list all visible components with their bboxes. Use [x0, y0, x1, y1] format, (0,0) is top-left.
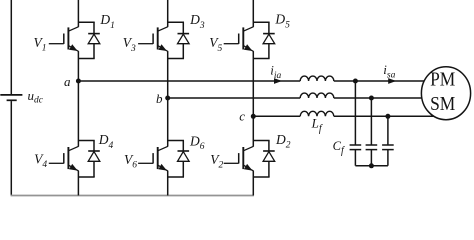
wire: bottom loop lower bar leg 1 — [78, 176, 94, 178]
wire: top loop upper bar leg 3 — [253, 21, 269, 23]
wire: phase c (filter to motor) — [334, 115, 434, 117]
svg-text:c: c — [239, 108, 245, 123]
node b — [165, 96, 170, 101]
junction phase c / C_f — [385, 114, 390, 119]
wire: leg 3 node to lower collector — [252, 116, 254, 146]
machine PM SM (circle) — [421, 67, 470, 120]
wire: top loop upper bar leg 1 — [78, 21, 94, 23]
wire: phase c (node c to filter) — [253, 115, 300, 117]
capacitor branch c wire upper — [387, 116, 389, 145]
capacitor C_f plate pair a — [350, 145, 362, 150]
capacitor branch c wire lower — [387, 150, 389, 166]
svg-text:SM: SM — [430, 94, 455, 115]
wire: bottom loop upper bar leg 2 — [168, 140, 184, 142]
capacitor branch a wire upper — [354, 81, 356, 145]
wire: leg 1 emitter to bottom rail — [77, 171, 79, 196]
wire: bottom loop lower bar leg 2 — [168, 176, 184, 178]
capacitor C_f plate pair b — [366, 145, 378, 150]
junction phase b / C_f — [369, 96, 374, 101]
wire: DC bus positive (left vertical, upper) — [10, 0, 12, 94]
transistor V1 — [49, 27, 79, 52]
wire: top loop lower bar leg 1 — [78, 58, 94, 60]
wire: leg 3 emitter to node — [252, 51, 254, 116]
wire: leg 3 collector to top bus — [252, 0, 254, 27]
diode D4 — [88, 141, 100, 178]
transistor V2 — [224, 146, 254, 171]
wire: phase a (filter to motor) — [334, 80, 424, 82]
inductor phase b — [300, 93, 334, 98]
wire: leg 2 collector to top bus — [167, 0, 169, 27]
capacitor C_f plate pair c — [382, 145, 394, 150]
inductor phase c — [300, 111, 334, 116]
node a — [76, 79, 81, 84]
transistor V4 — [49, 146, 79, 171]
wire: leg 3 emitter to bottom rail — [252, 171, 254, 196]
wire: bottom loop upper bar leg 1 — [78, 140, 94, 142]
wire: leg 1 collector to top bus — [77, 0, 79, 27]
wire: bottom DC rail — [11, 195, 254, 197]
wire: phase a (node a to filter) — [78, 80, 300, 82]
wire: leg 2 emitter to node — [167, 51, 169, 98]
diode D5 — [263, 22, 275, 58]
wire: top loop lower bar leg 3 — [253, 58, 269, 60]
wire: phase b (filter to motor) — [334, 97, 422, 99]
wire: bottom loop lower bar leg 3 — [253, 176, 269, 178]
wire: DC bus negative (left vertical, lower) — [10, 101, 12, 195]
transistor V6 — [138, 146, 168, 171]
transistor V3 — [138, 27, 168, 52]
transistor V5 — [224, 27, 254, 52]
wire: top loop lower bar leg 2 — [168, 58, 184, 60]
svg-text:a: a — [64, 74, 71, 89]
svg-text:PM: PM — [430, 69, 455, 90]
wire: leg 1 emitter to node — [77, 51, 79, 81]
capacitor branch b wire lower — [370, 150, 372, 166]
wire: leg 2 emitter to bottom rail — [167, 171, 169, 196]
diode D3 — [178, 22, 190, 58]
battery u_dc — [0, 95, 22, 100]
inductor phase a — [300, 76, 334, 81]
node c — [251, 114, 256, 119]
wire: phase b (node b to filter) — [168, 97, 301, 99]
diode D2 — [263, 141, 275, 178]
junction phase a / C_f — [353, 79, 358, 84]
capacitor branch b wire upper — [370, 98, 372, 145]
svg-text:b: b — [156, 91, 163, 106]
wire: leg 1 node to lower collector — [77, 81, 79, 147]
wire: bottom loop upper bar leg 3 — [253, 140, 269, 142]
arrow i_ia — [274, 78, 282, 84]
diode D1 — [88, 22, 100, 58]
capacitor branch a wire lower — [354, 150, 356, 166]
neutral junction dot — [369, 163, 374, 168]
wire: leg 2 node to lower collector — [167, 98, 169, 147]
wire: top loop upper bar leg 2 — [168, 21, 184, 23]
wire: capacitor neutral rail — [355, 165, 388, 167]
diode D6 — [178, 141, 190, 178]
arrow i_sa — [388, 78, 396, 84]
